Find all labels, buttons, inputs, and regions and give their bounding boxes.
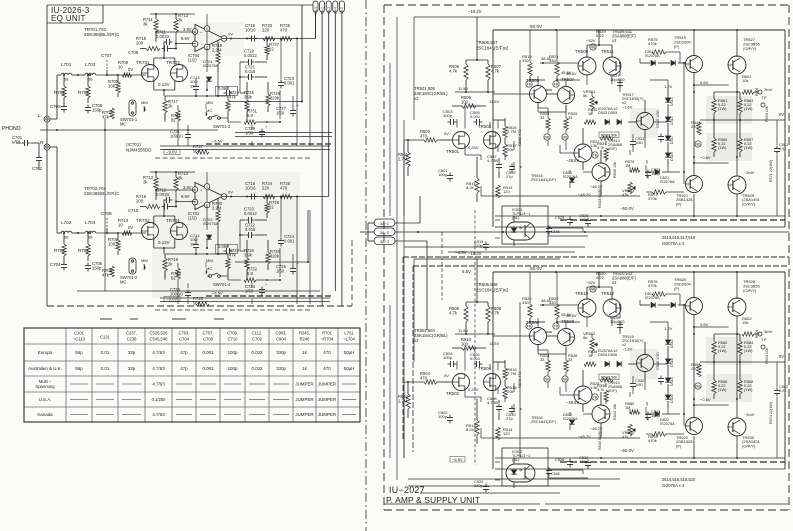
wire TR521 base row [645,407,647,414]
transistor TR702 [136,218,159,240]
opto box IC501 [502,206,548,244]
svg-text:NB: NB [591,287,597,291]
svg-text:C536 1/50: C536 1/50 [656,352,660,370]
wire supply drop [476,259,478,302]
svg-text:(1/2): (1/2) [188,57,197,62]
svg-text:33: 33 [540,115,544,120]
svg-text:R604: R604 [755,330,759,338]
svg-text:MM: MM [141,258,148,263]
svg-text:56p: 56p [75,350,83,355]
svg-text:2.7M: 2.7M [398,398,408,403]
wire connector pin2 down [321,12,323,306]
transistor TR503 [468,124,501,150]
svg-text:IS2076A x 4: IS2076A x 4 [662,483,685,488]
svg-text:Europa: Europa [38,350,53,355]
svg-text:27p: 27p [506,174,513,179]
wire driver bias [466,59,488,61]
resistor R562 [712,340,728,355]
svg-text:MC: MC [206,266,212,271]
svg-text:R604 10k: R604 10k [765,348,769,364]
wire phono ground rail [40,129,218,131]
wire row under FETs [165,253,228,255]
svg-text:220: 220 [262,185,270,190]
resistor R707 [102,108,114,119]
wire column TR517 [628,100,645,140]
wire TR509 TR511 tops [587,30,612,57]
svg-text:(P): (P) [676,201,682,206]
svg-text:TR508: TR508 [561,319,575,324]
resistor R550 [691,362,701,389]
resistor R508 [486,302,502,334]
svg-text:1/50: 1/50 [635,382,643,387]
capacitor C707 [101,53,112,75]
wire ch2 C520 [474,479,489,493]
svg-text:3.9V: 3.9V [183,27,192,32]
svg-text:4.7k: 4.7k [597,387,604,392]
capacitor C534 [645,409,661,421]
wire bottom rail ch [481,437,640,439]
wire left long vertical [104,118,106,291]
svg-text:0.0012: 0.0012 [244,211,257,216]
svg-text:2SK184C(GR/BL): 2SK184C(GR/BL) [414,91,448,96]
diode pair D503 D505 [598,107,621,125]
svg-text:0.13V: 0.13V [158,82,170,87]
transistor TR704 [166,218,188,240]
svg-text:0.1/250: 0.1/250 [152,397,166,402]
capacitor C722 [240,223,267,239]
svg-text:4.7/50: 4.7/50 [487,400,499,405]
svg-text:(P): (P) [676,443,682,448]
transistor TR517 [637,113,654,130]
svg-text:10: 10 [190,241,195,246]
voltage -50.0V [620,448,634,453]
svg-text:8: 8 [206,27,208,31]
diode D701 [203,59,219,81]
wire filter mid [72,74,118,76]
svg-text:C546: C546 [551,472,560,476]
resistor R577 [648,190,666,201]
svg-text:MM: MM [206,100,213,105]
connector 3A-3 [368,237,427,330]
svg-text:0.0033: 0.0033 [156,34,170,39]
wire D501 feet [569,170,571,188]
diode D511 [640,50,686,66]
resistor R728 [265,196,280,219]
svg-text:PHONO: PHONO [2,126,21,132]
diode D502 [563,413,578,424]
EQ unit border right segment [351,240,353,306]
svg-text:150p: 150p [92,108,102,113]
label TR514lbl [608,380,622,393]
svg-text:0.0012: 0.0012 [244,53,257,58]
resistor R717 [163,96,179,120]
svg-text:MM: MM [141,100,148,105]
svg-text:L: L [38,113,41,119]
svg-text:470: 470 [420,375,428,380]
transistor TR514 [574,386,592,412]
svg-text:68: 68 [64,235,69,240]
wire out top [693,29,738,57]
capacitor C705 [85,103,103,114]
svg-text:47p: 47p [180,350,188,355]
svg-text:C904: C904 [276,337,287,342]
wire ground stub [16,143,39,170]
op-amp label IC701bn [188,211,200,220]
svg-text:4.7/63: 4.7/63 [152,382,165,387]
svg-text:100: 100 [108,83,116,88]
wire FET sources down [465,145,498,161]
transistor TR515 [566,158,610,181]
capacitor C532 [630,378,644,390]
svg-text:48.6V: 48.6V [566,313,577,318]
svg-text:C702: C702 [32,166,43,171]
svg-text:200: 200 [136,40,144,45]
svg-text:(E/F): (E/F) [608,146,617,151]
svg-text:D514: D514 [670,339,674,348]
resistor R506 [449,302,468,334]
svg-text:3.9k: 3.9k [244,94,253,99]
svg-text:47p: 47p [180,366,188,371]
label R533 [598,188,602,208]
label C535 [656,110,664,142]
inner box right [784,30,786,227]
svg-text:470: 470 [280,27,288,32]
capacitor C709 [128,46,177,56]
svg-text:−52V: −52V [586,38,596,43]
svg-text:470: 470 [420,133,428,138]
capacitor C507 [487,154,502,178]
svg-text:560: 560 [193,148,201,153]
EQ unit border top [47,4,313,6]
wire R523 feet [548,372,566,392]
capacitor C726 [276,248,299,277]
svg-text:8.2k: 8.2k [466,185,475,190]
svg-text:JUMPER: JUMPER [318,382,336,387]
diode ladder [665,330,674,408]
capacitor C704 [50,262,67,271]
voltage -3mV [744,412,755,417]
svg-text:L703: L703 [85,62,96,67]
wire TR517 links [620,321,668,390]
voltage 0.6V [700,80,709,85]
wire out top [693,271,738,299]
diode D521 [646,169,680,184]
svg-text:TR502: TR502 [446,391,460,396]
svg-text:(1W): (1W) [744,145,753,150]
wire driver rail 11.5V [455,86,500,104]
wire cap C13 leads [195,78,197,96]
wire mid column [228,82,247,122]
svg-text:TR701: TR701 [136,60,150,65]
svg-text:−48.6V: −48.6V [566,400,579,405]
svg-text:(O/P/Y): (O/P/Y) [742,201,756,206]
capacitor C528 [610,315,625,331]
resistor R722 [171,268,182,280]
capacitor C711 [156,30,173,46]
resistor R519 [522,30,532,87]
svg-text:TR503: TR503 [478,124,492,129]
wire TR517 links [620,79,668,148]
wire TR527 base jog [693,84,729,86]
svg-text:1k: 1k [588,353,592,358]
svg-text:0V: 0V [228,190,233,195]
svg-text:R540 56k: R540 56k [601,376,617,380]
svg-text:C545: C545 [551,230,560,234]
PHONO label [2,126,21,132]
svg-text:100/10: 100/10 [170,133,183,138]
svg-text:4: 4 [206,185,208,189]
svg-text:L702: L702 [61,220,72,225]
svg-text:(1W): (1W) [744,348,753,353]
wire ch bottom rail3 [155,157,310,159]
svg-text:0.01: 0.01 [101,366,110,371]
wire opamp in- [175,34,195,45]
svg-text:−18.2V: −18.2V [468,9,482,14]
svg-text:Australien & U.K.: Australien & U.K. [28,366,62,371]
svg-text:48.6V: 48.6V [566,71,577,76]
P.AMP border left [383,5,385,510]
wire driver rail 11.5V [455,328,500,346]
capacitor C504 [443,351,457,367]
svg-text:IS2076A: IS2076A [563,417,578,421]
svg-text:(P): (P) [674,44,680,49]
resistor R719 [212,40,223,72]
capacitor C530 [579,455,591,469]
resistor R705 [108,75,120,97]
svg-text:(1W): (1W) [744,106,753,111]
svg-text:MM: MM [206,258,213,263]
voltage 0V gate [128,225,133,230]
label TR513lbl [608,138,622,151]
svg-text:820k: 820k [270,95,280,100]
svg-text:(1/2): (1/2) [188,215,197,220]
svg-text:0.022: 0.022 [251,366,263,371]
wire output node [700,92,756,157]
wire TR521 base row [645,165,647,172]
wire far-left vertical 2 [403,120,405,458]
svg-text:TR704: TR704 [166,218,180,223]
svg-text:50.0V: 50.0V [530,266,543,271]
inner box left [492,30,494,227]
wire out bottom [694,436,737,458]
voltage 1.2V [664,84,673,89]
wire VR501 links [591,92,593,114]
svg-text:TR702: TR702 [136,218,150,223]
svg-text:T.P: T.P [761,338,767,342]
svg-text:−48.6V: −48.6V [566,158,579,163]
resistor R512 [466,399,479,444]
svg-text:0.13V: 0.13V [158,240,170,245]
wire C527 link [619,304,621,318]
svg-text:330: 330 [522,300,529,305]
capacitor C502 [438,410,453,424]
svg-text:0.01: 0.01 [779,389,786,393]
capacitor C702 [32,155,43,172]
resistor R523 [540,111,550,140]
wire bias top [150,171,195,173]
resistor R601 [742,74,754,94]
wire TR513 TR515 col [583,128,601,196]
wire bottom rail ch [481,195,640,197]
svg-text:D513: D513 [670,97,674,106]
transistor TR512 [601,291,621,317]
capacitor C703 [50,104,67,113]
svg-text:(1W): (1W) [718,106,727,111]
wire filter mid [72,232,118,234]
svg-text:JUMPER: JUMPER [295,412,313,417]
svg-text:0V: 0V [128,67,133,72]
svg-text:2.2M: 2.2M [212,205,222,210]
transistor TR518 [637,355,654,372]
svg-text:C710: C710 [228,337,239,342]
sheet fold line [365,0,367,531]
svg-text:C708: C708 [101,211,112,216]
resistor R535 [584,107,598,124]
resistor R733 [262,23,275,41]
svg-text:(1W): (1W) [718,145,727,150]
svg-text:R: R [40,140,44,146]
svg-text:220p: 220p [474,483,484,488]
capacitor C506 [470,352,483,367]
connector 3A-2 [368,228,789,236]
svg-text:220: 220 [262,27,270,32]
svg-text:D503 D505: D503 D505 [598,111,617,115]
voltage -3mV [744,170,755,175]
svg-text:0.001: 0.001 [470,114,481,119]
inner box top [493,271,785,273]
resistor R537 [597,141,608,160]
svg-text:22: 22 [269,46,274,51]
transistor TR511 [601,49,621,75]
svg-text:IS2076A x 4: IS2076A x 4 [662,241,685,246]
resistor R518 [503,380,518,399]
wire R19 to row [217,230,219,254]
svg-text:7B: 7B [593,153,598,157]
capacitor C716 [245,181,258,200]
wire fb down [175,202,177,207]
wire C719 C721 left column [239,220,245,251]
svg-text:470: 470 [280,185,288,190]
svg-text:2.7M: 2.7M [507,129,517,134]
svg-text:0.018: 0.018 [245,227,256,232]
wire connector pin1 down [315,12,317,39]
svg-text:6.8: 6.8 [247,113,253,118]
transistor TR504 [468,366,501,392]
wire opamp in- [175,192,195,203]
svg-text:9.9V: 9.9V [181,36,190,41]
svg-text:22: 22 [269,204,274,209]
inductor L702 [61,220,72,240]
P.AMP border right [788,5,790,510]
wire IC502 fanout [408,479,620,493]
wire R537 to C531 [606,376,633,404]
svg-text:U.S.A.: U.S.A. [39,397,52,402]
wire ch bottom rail1 [160,145,330,147]
label R570 [518,371,522,388]
resistor R711 [143,14,158,42]
svg-text:2SC1841(E/F)x2: 2SC1841(E/F)x2 [476,287,509,292]
wire opamp in+ [155,31,195,33]
output terminal [758,87,773,107]
wire driver base bus [683,304,685,426]
transistor TR506 [526,298,579,345]
svg-text:0.22: 0.22 [596,33,605,38]
wire driver base bus [683,62,685,184]
svg-text:11.5V: 11.5V [489,341,500,346]
svg-text:100p: 100p [228,366,238,371]
svg-text:R574 22(1W): R574 22(1W) [769,402,773,424]
svg-text:IU−2027: IU−2027 [389,485,425,495]
capacitor C713 [190,75,200,93]
svg-text:TR506: TR506 [526,320,540,325]
svg-text:3A−1: 3A−1 [380,222,389,226]
wire R31 row [228,279,281,281]
wire mid row TR505 TR507 [452,94,530,120]
svg-text:8.2k: 8.2k [466,427,475,432]
wire diode ladder top [650,322,668,414]
resistor R509 [455,95,486,108]
svg-text:C237,: C237, [126,331,137,336]
label R603 [765,106,769,122]
svg-text:MC: MC [120,279,126,284]
svg-text:48.6V: 48.6V [541,298,552,303]
resistor R501 [398,139,410,176]
capacitor C505 [470,110,483,125]
svg-text:C525,526: C525,526 [150,331,169,336]
svg-text:−1.6V: −1.6V [622,104,633,109]
capacitor C509 [506,164,516,180]
capacitor C719 [240,49,267,66]
svg-text:(O/P/Y): (O/P/Y) [743,46,757,51]
svg-text:−6.5V: −6.5V [452,457,463,462]
svg-text:SW701-4: SW701-4 [213,282,231,287]
svg-text:0.6V: 0.6V [700,80,709,85]
svg-text:100p: 100p [438,414,448,419]
svg-text:D517: D517 [670,135,674,144]
op-amp IC701a [192,14,233,52]
svg-text:100: 100 [461,341,469,346]
jack L [38,113,50,122]
inductor L701 [61,62,72,82]
wire fb down [175,44,177,49]
svg-text:0.6V: 0.6V [700,322,709,327]
resistor R736 [280,181,292,199]
svg-text:−50.0V: −50.0V [620,448,634,453]
svg-text:C709,: C709, [227,331,238,336]
wire connector pin4 down [334,12,336,291]
wire driver col mid [505,141,521,170]
svg-text:L704: L704 [85,220,96,225]
svg-text:C703: C703 [50,104,61,109]
transistor TR703 [166,60,188,82]
wire mid to output [640,294,680,305]
label TR702 704 group [84,186,120,196]
svg-text:TR506,508: TR506,508 [476,282,498,287]
svg-text:10: 10 [190,83,195,88]
svg-text:220: 220 [691,124,698,129]
label TR518lbl [622,334,644,351]
wire output to terminal [754,334,785,362]
resistor R725 [244,90,255,111]
resistor R504 [404,371,453,384]
svg-text:4.7k: 4.7k [449,310,458,315]
capacitor C721 [240,65,267,81]
potentiometer VR501 [583,89,598,109]
svg-text:3.9k: 3.9k [244,252,253,257]
opto coupler IC501 [506,216,535,246]
wire TR505 leads [538,76,566,112]
transistor TR530 [728,418,761,448]
